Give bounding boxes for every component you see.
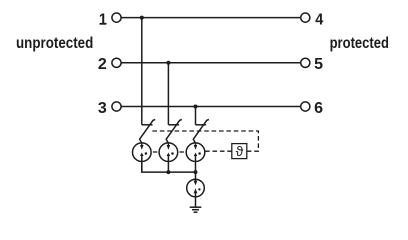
spark gap F4 body (to ground) (187, 179, 205, 197)
wire drop 3 (195, 107, 197, 125)
spark gap F2 electrodes (167, 143, 174, 156)
spark gap F3 electrodes (194, 143, 201, 156)
junction bus-F2 (166, 170, 170, 174)
svg-text:2: 2 (98, 56, 107, 73)
spark gap F1 electrodes (140, 143, 147, 156)
terminal 1 (112, 13, 121, 22)
wire F1 bottom to bus (141, 156, 143, 172)
svg-text:3: 3 (98, 100, 107, 117)
wire F4 bottom to ground (195, 192, 197, 208)
svg-text:4: 4 (315, 11, 324, 29)
spark gap F2 body (159, 143, 178, 162)
svg-text:1: 1 (99, 11, 108, 29)
spark gap F3 body (186, 143, 205, 162)
svg-text:ϑ: ϑ (236, 143, 244, 159)
dashed mechanical linkage (top + right side to theta box) (152, 131, 258, 151)
wire line 2 (net 2-5) (121, 62, 300, 64)
svg-text:unprotected: unprotected (16, 35, 93, 52)
wire F3 bottom to bus (195, 156, 197, 172)
ground (190, 207, 202, 212)
svg-text:protected: protected (330, 35, 389, 52)
wire bus to F4 (195, 172, 197, 180)
junction on line 3 (194, 105, 198, 109)
junction on line 2 (166, 61, 170, 65)
wire line 1 (net 1-4) (121, 17, 300, 19)
dashed link F2-F3 (180, 151, 184, 153)
spark gap F1 body (133, 143, 152, 162)
switch S2 (thermal disconnect) (166, 119, 182, 143)
terminal 2 (112, 58, 121, 67)
junction on line 1 (140, 16, 144, 20)
terminal 5 (301, 58, 310, 67)
wire drop 2 (167, 63, 169, 125)
terminal 4 (301, 13, 310, 22)
wire ground bus (142, 162, 196, 172)
wire F2 bottom to bus (167, 156, 169, 172)
dashed link F1-F2 (153, 151, 157, 153)
wire drop 1 (141, 18, 143, 125)
svg-text:6: 6 (314, 100, 323, 117)
svg-text:5: 5 (314, 56, 323, 73)
wire line 3 (net 3-6) (121, 106, 300, 108)
terminal 3 (112, 102, 121, 111)
terminal 6 (301, 102, 310, 111)
switch S3 (thermal disconnect) (193, 119, 209, 143)
junction bus-F4 (194, 170, 198, 174)
spark gap F4 electrodes (194, 180, 201, 193)
pin label 1 foot serif (100, 23, 106, 25)
switch S1 (thermal disconnect) (140, 119, 156, 143)
thermal monitor box (232, 144, 247, 159)
dashed link F3 to theta box (205, 150, 232, 152)
